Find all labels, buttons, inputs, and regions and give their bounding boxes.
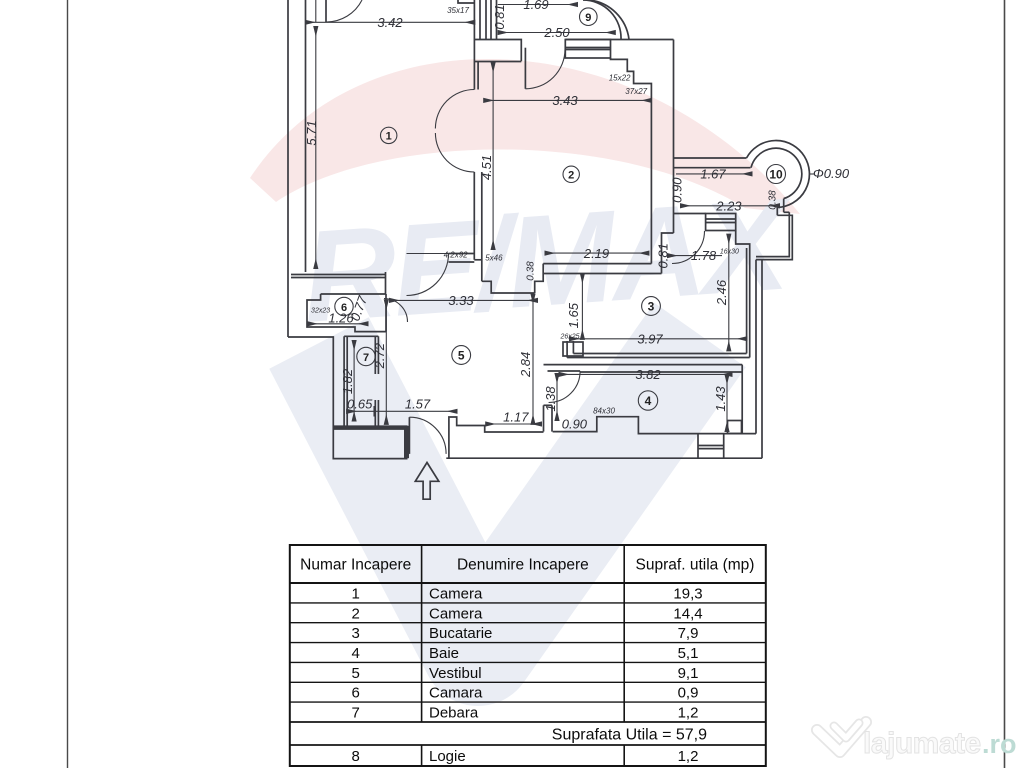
- niche 0.38: [535, 264, 544, 293]
- table column lines: [421, 545, 423, 722]
- french door arc lower: [435, 133, 474, 172]
- room4 right wall: [741, 365, 743, 434]
- balcony passage lines: [674, 157, 747, 159]
- svg-text:1.65: 1.65: [566, 302, 581, 328]
- loggia door arc: [525, 49, 565, 89]
- svg-text:0.90: 0.90: [562, 417, 588, 432]
- svg-text:Φ0.90: Φ0.90: [813, 166, 850, 181]
- svg-text:2.72: 2.72: [372, 342, 387, 369]
- window room1/loggia (vertical lines): [473, 0, 475, 90]
- table header: [300, 557, 754, 574]
- dim 2.84: [532, 295, 534, 424]
- svg-text:5x46: 5x46: [485, 254, 503, 263]
- svg-text:1.67: 1.67: [700, 167, 726, 182]
- svg-text:0.38: 0.38: [768, 190, 779, 210]
- dim 2.19: [546, 252, 649, 254]
- kitchen right wall: [736, 231, 750, 358]
- svg-text:1.57: 1.57: [405, 397, 431, 412]
- svg-text:1.43: 1.43: [713, 386, 728, 412]
- svg-text:Denumire Incapere: Denumire Incapere: [457, 557, 589, 574]
- right frame line: [1004, 0, 1006, 768]
- svg-text:2.23: 2.23: [715, 199, 742, 214]
- svg-text:3.43: 3.43: [552, 93, 578, 108]
- DIMTEXT: [304, 0, 850, 432]
- svg-text:lajumate: lajumate: [863, 727, 981, 760]
- entrance jamb thick: [404, 426, 409, 458]
- svg-text:5,1: 5,1: [678, 645, 699, 662]
- svg-text:2: 2: [352, 605, 360, 622]
- room 1 left inner wall: [305, 0, 307, 272]
- circle 2: [563, 166, 579, 182]
- svg-text:Baie: Baie: [429, 645, 459, 662]
- svg-text:2.19: 2.19: [583, 246, 609, 261]
- svg-text:Camera: Camera: [429, 586, 483, 603]
- remax balloon blue V: [319, 335, 700, 650]
- remax balloon red band: [250, 59, 800, 214]
- table row lines: [290, 582, 766, 584]
- pillar box: [728, 421, 742, 434]
- svg-text:Debara: Debara: [429, 705, 479, 722]
- svg-text:1,2: 1,2: [678, 705, 699, 722]
- svg-text:Suprafata Utila = 57,9: Suprafata Utila = 57,9: [552, 727, 707, 744]
- dim 1.82: [353, 341, 355, 421]
- svg-text:2.50: 2.50: [543, 25, 570, 40]
- dim 1.26: [308, 323, 367, 325]
- dim 1.65: [581, 274, 583, 339]
- svg-text:6: 6: [352, 685, 360, 702]
- bath door leaf: [548, 370, 581, 372]
- dim 1.69: [498, 4, 577, 6]
- svg-text:5: 5: [458, 349, 465, 363]
- circle 3: [642, 297, 661, 316]
- svg-text:Logie: Logie: [429, 748, 466, 765]
- room1 bottom wall: [291, 274, 386, 276]
- kitchen top wall: [674, 213, 706, 215]
- french door arc upper: [435, 90, 474, 129]
- circle 5: [452, 346, 471, 365]
- passage verticals: [776, 208, 778, 216]
- dim 2.50: [499, 32, 615, 34]
- dim 1.67: [676, 173, 751, 175]
- right wing outer wall: [761, 260, 763, 459]
- TABLE: [290, 545, 766, 766]
- svg-text:1,2: 1,2: [678, 748, 699, 765]
- svg-text:Vestibul: Vestibul: [429, 665, 482, 682]
- debara room7 walls: [343, 336, 345, 426]
- svg-text:7: 7: [352, 705, 360, 722]
- dim 1.78: [668, 255, 722, 257]
- svg-text:14,4: 14,4: [673, 605, 702, 622]
- circle 1: [381, 127, 397, 143]
- svg-text:35x17: 35x17: [447, 6, 469, 15]
- svg-text:10: 10: [769, 167, 783, 181]
- bath bottom window: [697, 434, 699, 459]
- svg-text:Supraf. utila (mp): Supraf. utila (mp): [636, 557, 755, 574]
- dim 2.46: [728, 235, 730, 351]
- shaft steps 15x22 37x27: [611, 58, 652, 264]
- kitchen bottom wall: [573, 353, 746, 355]
- room1/room2 divider lower: [473, 172, 475, 260]
- svg-text:2.46: 2.46: [714, 279, 729, 306]
- room2 right outer wall: [673, 40, 675, 234]
- dim 1.38: [556, 374, 558, 420]
- door room1-hall arc: [407, 254, 449, 296]
- dim 1.43: [726, 375, 728, 431]
- kitchen top-left jog: [662, 233, 674, 274]
- door room1 to hall lintel: [449, 253, 475, 255]
- svg-text:4: 4: [352, 645, 360, 662]
- loggia outer curved wall: [589, 0, 629, 40]
- divider step: [474, 259, 482, 261]
- bath interior bottom jags: [553, 417, 756, 434]
- right wing inner wall: [755, 260, 757, 434]
- lajumate logo mark: [817, 722, 866, 752]
- svg-text:3: 3: [352, 625, 360, 642]
- svg-text:1.69: 1.69: [523, 0, 548, 12]
- apartment left lower boundary: [288, 337, 408, 459]
- svg-text:3.82: 3.82: [635, 367, 661, 382]
- dim 3.97: [570, 338, 747, 340]
- dim 2.72: [385, 300, 387, 424]
- dim 5.71: [315, 0, 317, 22]
- svg-text:5: 5: [352, 665, 360, 682]
- bottom outer wall right: [446, 457, 762, 459]
- svg-text:0,9: 0,9: [678, 685, 699, 702]
- bath door arc: [549, 371, 581, 403]
- room1/room2 divider upper stub: [477, 62, 479, 90]
- svg-text:7,9: 7,9: [678, 625, 699, 642]
- entrance door leaf: [408, 417, 410, 454]
- PLAN: [288, 0, 809, 499]
- circle 9: [580, 8, 598, 26]
- svg-text:9: 9: [585, 12, 591, 24]
- camara door arc: [384, 299, 408, 323]
- dim 1.17: [486, 423, 541, 425]
- kitchen door arc: [672, 231, 705, 264]
- room7 bottom thick wall: [333, 425, 407, 430]
- svg-text:1.78: 1.78: [691, 248, 717, 263]
- svg-text:4: 4: [645, 394, 652, 408]
- svg-text:3.97: 3.97: [637, 332, 663, 347]
- room 1 top door arc: [326, 0, 362, 22]
- dim 3.33: [390, 299, 537, 301]
- room 1 left outer wall: [287, 0, 289, 337]
- top wall right segment: [565, 39, 673, 41]
- svg-text:0.38: 0.38: [526, 261, 537, 281]
- dim 4.51: [492, 63, 494, 249]
- svg-text:1.17: 1.17: [503, 410, 529, 425]
- svg-text:1.26: 1.26: [328, 311, 354, 326]
- svg-text:4.2x92: 4.2x92: [444, 251, 469, 260]
- circle 7: [357, 347, 375, 365]
- svg-text:7: 7: [363, 352, 369, 364]
- svg-text:19,3: 19,3: [673, 586, 702, 603]
- wall box under window: [474, 40, 521, 62]
- room2 bottom wall: [543, 263, 651, 265]
- LAJUMATE: [817, 722, 1017, 760]
- circle 4: [638, 391, 657, 410]
- svg-text:0.90: 0.90: [670, 177, 685, 203]
- svg-text:84x30: 84x30: [593, 407, 615, 416]
- svg-text:1.82: 1.82: [340, 368, 355, 394]
- camara room6 outline: [307, 294, 386, 332]
- vestibule inner bottom jags: [449, 417, 544, 458]
- svg-text:Camera: Camera: [429, 605, 483, 622]
- bath left stub wall: [543, 405, 545, 431]
- dim 3.82: [560, 373, 732, 375]
- dim 3.43: [484, 99, 651, 101]
- table body: [352, 586, 708, 766]
- WATERMARKS-BG: [250, 59, 800, 650]
- window loggia/room2: [565, 40, 610, 59]
- loggia door leaf: [524, 48, 526, 89]
- svg-text:.ro: .ro: [982, 729, 1017, 759]
- shaft 26x25: [563, 342, 583, 356]
- svg-text:3.42: 3.42: [377, 15, 403, 30]
- kitchen window: [706, 214, 736, 231]
- svg-text:0.65: 0.65: [347, 397, 373, 412]
- top wall notch: [458, 0, 475, 3]
- dim 0.65 1.57: [347, 410, 456, 412]
- passage walls top: [756, 215, 792, 259]
- svg-text:2: 2: [568, 170, 574, 182]
- balcony10 outer circle: [747, 141, 810, 208]
- room4 top wall: [544, 364, 743, 366]
- svg-text:5.71: 5.71: [304, 120, 319, 145]
- left frame line: [67, 0, 69, 768]
- entrance door arc: [409, 417, 446, 454]
- circle 10: [767, 165, 786, 184]
- svg-text:37x27: 37x27: [625, 87, 647, 96]
- svg-text:1: 1: [352, 586, 360, 603]
- svg-text:Bucatarie: Bucatarie: [429, 625, 492, 642]
- dim phi0.90: [810, 173, 815, 175]
- dim 3.42: [306, 21, 474, 23]
- balcony10 inner circle: [751, 148, 802, 198]
- svg-text:26x25: 26x25: [559, 334, 579, 341]
- svg-text:3: 3: [648, 300, 655, 314]
- svg-text:0.81: 0.81: [492, 4, 507, 29]
- table outer border: [290, 545, 766, 766]
- svg-text:8: 8: [352, 748, 360, 765]
- svg-text:Camara: Camara: [429, 685, 483, 702]
- room 1 top door jamb: [325, 0, 327, 22]
- svg-text:9,1: 9,1: [678, 665, 699, 682]
- svg-text:0.81: 0.81: [656, 243, 671, 268]
- svg-text:3.33: 3.33: [448, 293, 474, 308]
- entrance arrow symbol: [415, 463, 439, 500]
- svg-text:2.84: 2.84: [518, 352, 533, 378]
- kitchen/vestibule stub wall: [566, 341, 568, 358]
- svg-text:Numar Incapere: Numar Incapere: [300, 557, 411, 574]
- svg-text:1: 1: [386, 131, 392, 143]
- svg-text:1.38: 1.38: [543, 386, 558, 412]
- svg-text:16x30: 16x30: [720, 249, 739, 256]
- circle 6: [335, 297, 353, 315]
- svg-text:4.51: 4.51: [479, 155, 494, 180]
- svg-text:15x22: 15x22: [609, 74, 631, 83]
- dim 2.23: [681, 205, 779, 207]
